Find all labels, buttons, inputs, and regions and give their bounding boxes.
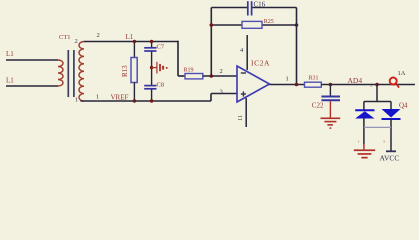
capacitor C22: [312, 85, 340, 110]
port 1A: [390, 70, 406, 88]
wire VREF riser to pin3: [210, 94, 212, 102]
junction inverting node: [210, 74, 214, 78]
capacitor C16: [248, 1, 266, 16]
junction feedback right: [295, 23, 299, 27]
svg-text:1: 1: [96, 94, 99, 101]
svg-text:C7: C7: [157, 44, 165, 51]
capacitor C7: [144, 44, 165, 52]
wire feedback right rail: [296, 8, 298, 85]
svg-text:AVCC: AVCC: [380, 154, 400, 163]
svg-text:Q4: Q4: [399, 102, 408, 110]
junction R13 top: [133, 40, 136, 43]
svg-text:L1: L1: [126, 33, 134, 41]
junction feedback left: [210, 23, 214, 27]
wire AD4 net: [321, 84, 415, 86]
wire Q4 bottom rail: [364, 126, 391, 128]
svg-text:L1: L1: [6, 77, 14, 85]
junction cap top: [150, 40, 153, 43]
wire: [6, 59, 58, 61]
wire feedback top branch: [211, 7, 247, 9]
svg-text:R19: R19: [184, 68, 194, 74]
svg-text:AD4: AD4: [348, 76, 363, 85]
pin 11 power line: [245, 98, 247, 127]
resistor R19: [184, 68, 203, 79]
power port AVCC: [380, 151, 400, 162]
ground below C22: [321, 101, 341, 129]
resistor R13: [121, 42, 137, 102]
core: [67, 50, 69, 97]
wire L1 drop to R19: [177, 41, 179, 76]
ground rotated (C7/C8 midpoint): [152, 62, 168, 74]
wire R19 to opamp: [203, 75, 237, 77]
svg-text:L1: L1: [6, 50, 14, 58]
svg-text:2: 2: [370, 84, 372, 88]
svg-text:3: 3: [383, 139, 385, 143]
wire L1 net: [84, 41, 178, 43]
junction output: [295, 83, 299, 87]
op-amp IC2A: [237, 58, 270, 102]
capacitor C8: [144, 82, 164, 89]
resistor R25: [242, 19, 274, 28]
pin 4 power line: [246, 35, 248, 70]
svg-text:2: 2: [97, 32, 100, 39]
svg-text:1: 1: [286, 76, 289, 83]
transformer CT1: [58, 34, 84, 104]
svg-text:CT1: CT1: [59, 34, 71, 41]
svg-text:1: 1: [75, 97, 78, 104]
svg-text:2: 2: [75, 38, 78, 45]
diode Q4 left: [355, 102, 374, 150]
diode Q4 right: [382, 102, 409, 152]
wire VREF net: [81, 100, 212, 102]
secondary winding: [79, 42, 84, 102]
svg-text:C16: C16: [254, 1, 266, 9]
junction R31 right: [329, 83, 333, 87]
svg-text:1: 1: [358, 140, 360, 144]
primary winding: [58, 60, 63, 86]
svg-text:R31: R31: [309, 76, 319, 82]
wire output: [270, 84, 305, 86]
junction cap bottom: [150, 99, 153, 102]
ground below Q4 left: [354, 149, 375, 158]
svg-text:C8: C8: [157, 82, 165, 89]
junction Q4 branch: [375, 83, 379, 87]
svg-text:IC2A: IC2A: [251, 58, 270, 67]
wire Q4 drop: [376, 85, 378, 102]
wire capacitor branch: [151, 42, 153, 48]
resistor R31: [305, 76, 322, 88]
svg-text:R13: R13: [121, 65, 129, 77]
wire feedback lower branch: [211, 24, 242, 26]
svg-text:3: 3: [220, 88, 223, 95]
svg-text:R25: R25: [264, 19, 274, 25]
wire feedback left rail: [210, 8, 212, 77]
svg-text:2: 2: [220, 68, 223, 75]
svg-text:11: 11: [237, 115, 244, 121]
svg-text:1A: 1A: [398, 70, 406, 77]
wire: [6, 85, 58, 87]
wire Q4 top rail: [364, 101, 391, 103]
junction cap mid: [150, 66, 153, 69]
junction R13 bottom: [133, 99, 136, 102]
svg-text:C22: C22: [312, 102, 324, 110]
